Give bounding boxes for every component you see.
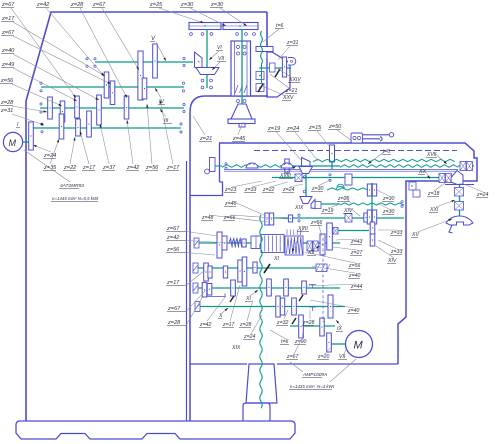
- svg-text:XII: XII: [307, 250, 315, 256]
- svg-text:z=31: z=31: [0, 108, 13, 114]
- svg-text:z=25: z=25: [337, 196, 350, 202]
- svg-text:z=27: z=27: [350, 250, 364, 256]
- svg-text:XVIII: XVIII: [279, 173, 291, 179]
- svg-text:z=30: z=30: [210, 2, 224, 8]
- svg-text:z=28: z=28: [167, 320, 181, 326]
- svg-text:z=44: z=44: [350, 284, 363, 290]
- svg-text:z=28: z=28: [0, 100, 14, 106]
- svg-text:z=24: z=24: [286, 126, 299, 132]
- svg-text:z=33: z=33: [390, 249, 403, 255]
- svg-text:XV: XV: [411, 232, 419, 238]
- svg-text:n=1435 min¹, N=3 kWt: n=1435 min¹, N=3 kWt: [290, 384, 335, 389]
- svg-text:z=24: z=24: [243, 334, 256, 340]
- svg-text:z=49: z=49: [1, 62, 14, 68]
- svg-text:V: V: [151, 36, 156, 42]
- svg-text:z=21: z=21: [199, 136, 212, 142]
- svg-text:z=56: z=56: [145, 165, 159, 171]
- svg-text:z=40: z=40: [1, 48, 15, 54]
- svg-text:t=6: t=6: [276, 23, 283, 29]
- svg-text:VII: VII: [218, 56, 225, 62]
- svg-text:z=17: z=17: [166, 165, 180, 171]
- svg-text:z=15: z=15: [308, 125, 322, 131]
- svg-text:z=23: z=23: [224, 187, 237, 193]
- svg-text:z=19: z=19: [321, 208, 334, 214]
- svg-text:z=17: z=17: [222, 322, 236, 328]
- svg-text:z=22: z=22: [262, 187, 275, 193]
- svg-text:z=56: z=56: [223, 215, 236, 221]
- svg-text:z=67: z=67: [286, 354, 300, 360]
- svg-text:X: X: [218, 313, 223, 319]
- svg-text:z=24: z=24: [43, 153, 56, 159]
- svg-text:z=24: z=24: [476, 192, 489, 198]
- svg-text:t=6: t=6: [281, 339, 288, 345]
- svg-text:z=21: z=21: [285, 88, 298, 94]
- svg-text:XXIV: XXIV: [288, 77, 301, 83]
- svg-text:z=67: z=67: [1, 30, 15, 36]
- svg-text:n=1445 min¹ N=5,5 kWt: n=1445 min¹ N=5,5 kWt: [52, 196, 99, 201]
- svg-text:AMP1009A: AMP1009A: [302, 372, 327, 378]
- svg-text:IV: IV: [159, 99, 164, 105]
- svg-text:z=40: z=40: [347, 308, 360, 314]
- svg-text:4AT2MR93: 4AT2MR93: [60, 183, 84, 189]
- svg-text:z=56: z=56: [0, 78, 14, 84]
- svg-text:z=48: z=48: [201, 215, 214, 221]
- svg-text:z=42: z=42: [166, 235, 180, 241]
- svg-text:z=30: z=30: [382, 196, 395, 202]
- svg-text:XX: XX: [418, 169, 426, 175]
- svg-text:z=56: z=56: [348, 263, 361, 269]
- svg-text:z=28: z=28: [239, 322, 252, 328]
- svg-text:z=17: z=17: [82, 165, 96, 171]
- svg-text:z=31: z=31: [286, 40, 299, 46]
- svg-text:I: I: [17, 122, 19, 128]
- svg-text:z=28: z=28: [70, 2, 84, 8]
- svg-text:z=50: z=50: [328, 124, 342, 130]
- svg-text:z=30: z=30: [382, 209, 395, 215]
- svg-text:z=56: z=56: [310, 220, 323, 226]
- svg-text:VI: VI: [217, 45, 222, 51]
- svg-text:XVII: XVII: [426, 152, 437, 158]
- svg-text:z=24: z=24: [282, 187, 295, 193]
- svg-text:z=33: z=33: [390, 230, 403, 236]
- svg-text:z=67: z=67: [1, 2, 15, 8]
- svg-text:M: M: [354, 340, 364, 352]
- svg-text:z=18: z=18: [427, 191, 440, 197]
- svg-text:z=43: z=43: [350, 239, 363, 245]
- svg-text:z=67: z=67: [92, 2, 106, 8]
- svg-text:z=19: z=19: [267, 126, 280, 132]
- svg-text:z=22: z=22: [63, 165, 77, 171]
- svg-text:z=30: z=30: [311, 186, 324, 192]
- svg-text:z=33: z=33: [244, 187, 257, 193]
- svg-text:IX: IX: [337, 326, 342, 332]
- svg-text:z=20: z=20: [317, 354, 330, 360]
- svg-text:z=40: z=40: [348, 273, 361, 279]
- svg-text:z=45: z=45: [232, 136, 246, 142]
- svg-text:XI: XI: [245, 296, 251, 302]
- svg-text:z=25: z=25: [149, 2, 163, 8]
- svg-text:M: M: [9, 138, 17, 148]
- svg-text:z=67: z=67: [167, 306, 181, 312]
- svg-text:XI: XI: [273, 256, 279, 262]
- svg-text:z=17: z=17: [166, 280, 180, 286]
- svg-text:z=32: z=32: [276, 320, 289, 326]
- svg-text:z=42: z=42: [36, 2, 50, 8]
- svg-text:z=30: z=30: [180, 2, 194, 8]
- svg-text:z=56: z=56: [166, 247, 180, 253]
- svg-text:z=42: z=42: [199, 322, 212, 328]
- svg-text:VII: VII: [339, 354, 346, 360]
- svg-text:z=28: z=28: [302, 320, 315, 326]
- svg-text:XIX: XIX: [231, 345, 241, 351]
- svg-text:z=42: z=42: [126, 165, 140, 171]
- svg-text:z=67: z=67: [166, 226, 180, 232]
- svg-text:III: III: [164, 118, 169, 124]
- svg-text:z=37: z=37: [102, 165, 116, 171]
- svg-text:XXV: XXV: [282, 95, 294, 101]
- svg-text:XXI: XXI: [429, 207, 439, 213]
- svg-text:XIX: XIX: [294, 205, 304, 211]
- svg-text:XIV: XIV: [387, 258, 397, 264]
- svg-text:z=17: z=17: [1, 16, 15, 22]
